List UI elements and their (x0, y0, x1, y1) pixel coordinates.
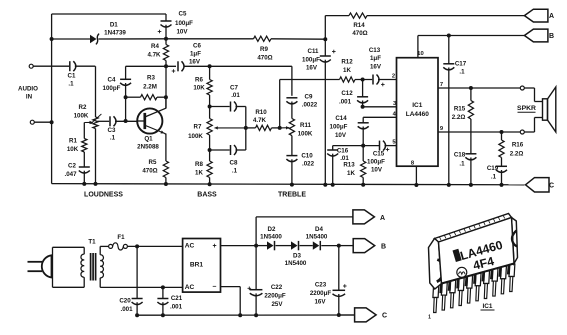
svg-text:100K: 100K (188, 133, 203, 140)
svg-text:10K: 10K (193, 85, 205, 92)
svg-text:C22: C22 (271, 284, 283, 291)
svg-text:470Ω: 470Ω (352, 30, 367, 37)
svg-text:C: C (549, 183, 554, 190)
svg-text:C21: C21 (171, 295, 183, 302)
svg-text:AC: AC (185, 243, 195, 250)
svg-text:C11: C11 (307, 48, 319, 55)
svg-text:4.7K: 4.7K (253, 117, 267, 124)
svg-text:R8: R8 (195, 161, 203, 168)
svg-text:2.2Ω: 2.2Ω (452, 114, 466, 121)
svg-text:C3: C3 (108, 127, 116, 134)
svg-text:D1: D1 (110, 22, 118, 29)
svg-text:R13: R13 (343, 162, 355, 169)
svg-text:C12: C12 (341, 90, 353, 97)
svg-text:C7: C7 (230, 85, 238, 92)
svg-text:B: B (381, 244, 386, 251)
svg-text:1K: 1K (195, 170, 203, 177)
svg-text:R12: R12 (341, 59, 353, 66)
svg-text:.1: .1 (110, 135, 116, 142)
svg-text:AC: AC (185, 284, 195, 291)
svg-text:D3: D3 (293, 253, 301, 260)
svg-text:R3: R3 (147, 75, 155, 82)
svg-text:16V: 16V (306, 65, 318, 72)
svg-text:SPKR: SPKR (517, 105, 536, 112)
svg-text:.001: .001 (120, 306, 133, 313)
svg-text:.001: .001 (339, 99, 352, 106)
svg-text:R2: R2 (79, 104, 87, 111)
svg-text:A: A (549, 13, 554, 20)
svg-text:100μF: 100μF (330, 124, 348, 131)
svg-text:7: 7 (440, 82, 443, 88)
svg-text:C6: C6 (193, 43, 201, 50)
svg-text:IC1: IC1 (483, 303, 493, 310)
svg-text:LOUDNESS: LOUDNESS (84, 192, 123, 199)
svg-text:10V: 10V (176, 29, 188, 36)
svg-text:A: A (380, 215, 385, 222)
svg-text:Q1: Q1 (144, 136, 153, 143)
svg-text:1μF: 1μF (190, 51, 201, 58)
svg-text:C10: C10 (301, 153, 313, 160)
svg-text:C9: C9 (305, 94, 313, 101)
svg-text:1N5400: 1N5400 (285, 260, 307, 267)
svg-text:16V: 16V (314, 299, 326, 306)
svg-text:1K: 1K (347, 170, 355, 177)
svg-text:100pF: 100pF (103, 85, 121, 92)
svg-text:C19: C19 (487, 165, 499, 172)
svg-text:470Ω: 470Ω (142, 168, 157, 175)
svg-text:.001: .001 (170, 304, 183, 311)
svg-text:R9: R9 (260, 46, 268, 53)
svg-text:LA4460: LA4460 (406, 111, 430, 118)
svg-text:C2: C2 (68, 163, 76, 170)
svg-text:10V: 10V (371, 167, 383, 174)
svg-text:C15: C15 (373, 151, 385, 158)
svg-text:1N5400: 1N5400 (260, 234, 282, 241)
svg-text:2.2M: 2.2M (143, 84, 157, 91)
svg-text:+: + (212, 243, 216, 250)
svg-text:C1: C1 (68, 73, 76, 80)
svg-text:R6: R6 (195, 77, 203, 84)
svg-text:1N5400: 1N5400 (306, 234, 328, 241)
svg-text:100K: 100K (298, 131, 313, 138)
svg-text:4.7K: 4.7K (147, 52, 161, 59)
svg-text:F1: F1 (117, 234, 125, 241)
svg-text:C17: C17 (455, 61, 467, 68)
svg-text:C4: C4 (108, 77, 116, 84)
svg-text:R15: R15 (454, 106, 466, 113)
svg-text:10V: 10V (335, 132, 347, 139)
svg-text:R14: R14 (353, 22, 365, 29)
svg-text:16V: 16V (370, 64, 382, 71)
svg-text:.047: .047 (64, 171, 77, 178)
svg-text:.1: .1 (459, 161, 465, 168)
svg-text:.1: .1 (232, 168, 238, 175)
svg-text:C5: C5 (179, 11, 187, 18)
svg-text:D2: D2 (268, 226, 276, 233)
svg-text:470Ω: 470Ω (257, 55, 272, 62)
svg-text:R11: R11 (300, 122, 312, 129)
svg-text:–: – (213, 284, 217, 291)
svg-text:2200μF: 2200μF (310, 290, 332, 297)
svg-text:100μF: 100μF (175, 20, 193, 27)
svg-text:C14: C14 (335, 115, 347, 122)
svg-text:R7: R7 (194, 124, 202, 131)
svg-text:25V: 25V (271, 301, 283, 308)
svg-text:2N5088: 2N5088 (137, 144, 159, 151)
svg-text:R1: R1 (69, 138, 77, 145)
svg-text:100μF: 100μF (302, 57, 320, 64)
svg-text:2200μF: 2200μF (264, 293, 286, 300)
svg-text:2: 2 (392, 74, 395, 80)
svg-text:B: B (549, 33, 554, 40)
svg-text:C13: C13 (369, 47, 381, 54)
svg-text:1N4739: 1N4739 (104, 30, 126, 37)
svg-text:.022: .022 (302, 161, 315, 168)
svg-text:IC1: IC1 (412, 102, 423, 109)
svg-text:C23: C23 (315, 282, 327, 289)
svg-text:C18: C18 (454, 152, 466, 159)
svg-text:R10: R10 (255, 109, 267, 116)
svg-text:T1: T1 (88, 239, 96, 246)
svg-text:.1: .1 (491, 174, 497, 181)
svg-text:10: 10 (417, 51, 423, 57)
svg-text:C20: C20 (119, 298, 131, 305)
svg-text:AUDIO: AUDIO (18, 86, 38, 93)
svg-text:D4: D4 (315, 226, 323, 233)
svg-text:2.2Ω: 2.2Ω (510, 151, 524, 158)
svg-text:IN: IN (26, 94, 33, 101)
svg-text:R16: R16 (512, 142, 524, 149)
svg-text:R4: R4 (151, 43, 159, 50)
svg-text:C16: C16 (337, 148, 349, 155)
svg-text:100K: 100K (74, 113, 89, 120)
svg-text:1: 1 (428, 315, 431, 321)
svg-text:TREBLE: TREBLE (278, 192, 306, 199)
svg-text:1K: 1K (343, 67, 351, 74)
svg-text:100μF: 100μF (367, 159, 385, 166)
svg-text:.1: .1 (68, 81, 74, 88)
svg-text:.1: .1 (459, 69, 465, 76)
svg-text:C: C (382, 313, 387, 320)
svg-text:BR1: BR1 (190, 262, 204, 269)
svg-text:C8: C8 (230, 160, 238, 167)
svg-text:.01: .01 (231, 92, 240, 99)
svg-text:.0022: .0022 (302, 102, 318, 109)
svg-text:16V: 16V (189, 59, 201, 66)
svg-text:1μF: 1μF (370, 55, 381, 62)
svg-text:10K: 10K (67, 146, 79, 153)
svg-text:R5: R5 (149, 159, 157, 166)
svg-text:BASS: BASS (197, 192, 217, 199)
